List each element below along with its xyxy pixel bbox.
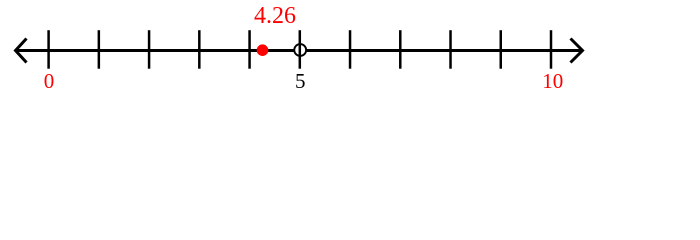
left arrowhead — [16, 39, 27, 63]
tick 6 — [349, 30, 352, 68]
tick 4 — [248, 30, 251, 68]
svg-text:10: 10 — [542, 69, 563, 93]
point at 4.26 — [257, 44, 269, 56]
open circle at 5 — [294, 44, 306, 56]
tick 0 — [47, 30, 50, 68]
tick 9 — [500, 30, 503, 68]
tick 3 — [198, 30, 201, 68]
svg-text:5: 5 — [295, 69, 306, 93]
svg-text:4.26: 4.26 — [254, 3, 296, 29]
number line axis — [16, 49, 582, 52]
tick 8 — [449, 30, 452, 68]
tick 10 — [550, 30, 553, 68]
tick 1 — [98, 30, 101, 68]
svg-text:0: 0 — [44, 69, 55, 93]
tick 5 — [299, 30, 302, 68]
tick 7 — [399, 30, 402, 68]
right arrowhead — [571, 39, 583, 63]
tick 2 — [148, 30, 151, 68]
